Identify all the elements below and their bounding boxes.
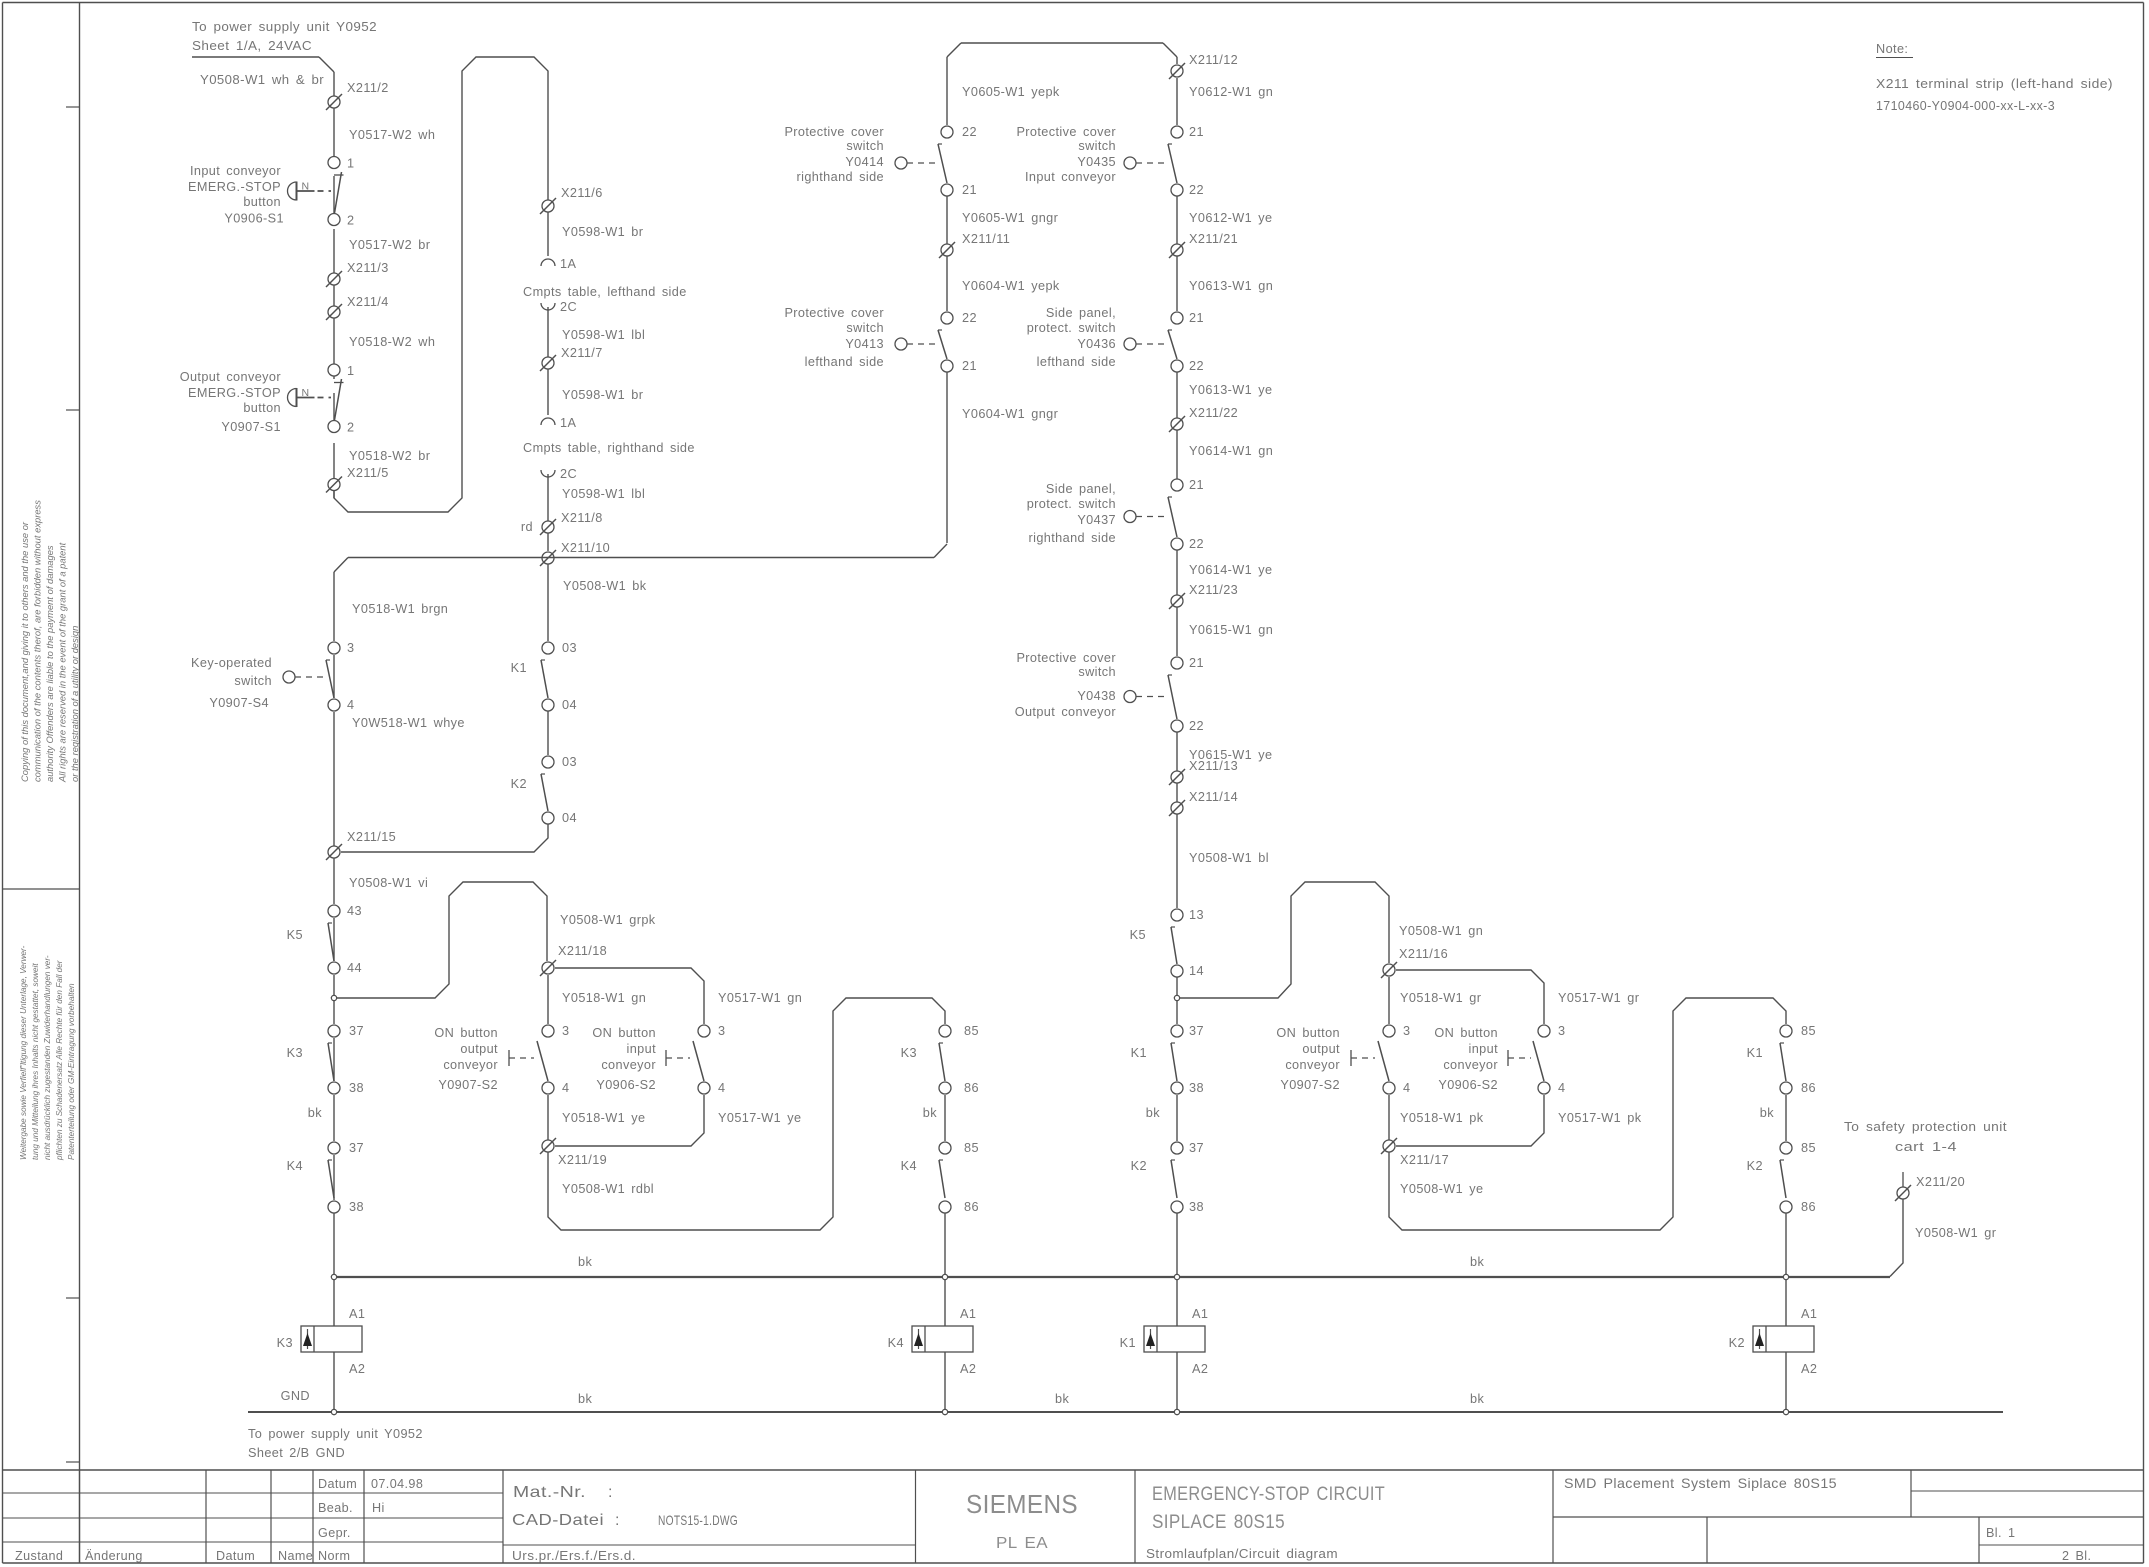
svg-text:rd: rd	[521, 520, 533, 534]
svg-text:A2: A2	[349, 1362, 365, 1376]
svg-text:bk: bk	[1055, 1392, 1069, 1406]
svg-text:X211/17: X211/17	[1400, 1153, 1449, 1167]
svg-text:K1: K1	[1747, 1046, 1763, 1060]
svg-text:Y0518-W2 wh: Y0518-W2 wh	[349, 335, 435, 349]
svg-text:4: 4	[1558, 1081, 1565, 1095]
svg-text:07.04.98: 07.04.98	[371, 1477, 423, 1491]
svg-text:Y0435: Y0435	[1077, 155, 1116, 169]
svg-text:A1: A1	[349, 1307, 365, 1321]
svg-text:switch: switch	[1078, 665, 1116, 679]
svg-text:04: 04	[562, 811, 577, 825]
svg-text:2: 2	[347, 214, 354, 228]
svg-text:Protective cover: Protective cover	[1016, 651, 1116, 665]
svg-text:Y0605-W1 gngr: Y0605-W1 gngr	[962, 211, 1059, 225]
svg-text:37: 37	[349, 1024, 364, 1038]
svg-text:K2: K2	[1729, 1336, 1745, 1350]
svg-text:ON button: ON button	[434, 1026, 498, 1040]
svg-text:X211/4: X211/4	[347, 295, 389, 309]
svg-text:Y0614-W1 ye: Y0614-W1 ye	[1189, 563, 1272, 577]
svg-text:21: 21	[1189, 656, 1204, 670]
svg-text:X211/8: X211/8	[561, 511, 603, 525]
svg-text:2: 2	[347, 421, 354, 435]
svg-text:GND: GND	[281, 1389, 310, 1403]
svg-text:Y0508-W1 rdbl: Y0508-W1 rdbl	[562, 1182, 654, 1196]
svg-text:Y0508-W1 grpk: Y0508-W1 grpk	[560, 913, 656, 927]
svg-text:85: 85	[964, 1024, 979, 1038]
svg-text:K3: K3	[287, 1046, 303, 1060]
svg-text:K5: K5	[287, 928, 303, 942]
svg-text:pflichten zu Schadenersatz All: pflichten zu Schadenersatz Alle Rechte f…	[55, 960, 64, 1161]
svg-text:All rights are reserved in the: All rights are reserved in the event of …	[57, 542, 68, 783]
svg-text:Y0517-W1 gn: Y0517-W1 gn	[718, 991, 802, 1005]
svg-text:conveyor: conveyor	[1285, 1058, 1340, 1072]
svg-text:X211/5: X211/5	[347, 466, 389, 480]
svg-text:X211/23: X211/23	[1189, 583, 1238, 597]
svg-text:EMERG.-STOP: EMERG.-STOP	[188, 386, 281, 400]
svg-text:Norm: Norm	[318, 1549, 350, 1563]
svg-text:22: 22	[962, 125, 977, 139]
svg-text:1: 1	[347, 157, 354, 171]
svg-text:To power supply unit Y0952: To power supply unit Y0952	[192, 20, 377, 34]
svg-text:K4: K4	[888, 1336, 904, 1350]
svg-text:conveyor: conveyor	[443, 1058, 498, 1072]
svg-text:Patenterteilung oder GM-Eintra: Patenterteilung oder GM-Eintragung vorbe…	[67, 983, 76, 1160]
svg-text:Stromlaufplan/Circuit diagram: Stromlaufplan/Circuit diagram	[1146, 1546, 1338, 1561]
svg-text:86: 86	[964, 1200, 979, 1214]
svg-text:Output conveyor: Output conveyor	[1015, 705, 1117, 719]
svg-text:switch: switch	[1078, 139, 1116, 153]
svg-text:K4: K4	[901, 1159, 917, 1173]
svg-text:K5: K5	[1130, 928, 1146, 942]
svg-text:Protective cover: Protective cover	[784, 125, 884, 139]
svg-text:A1: A1	[1192, 1307, 1208, 1321]
svg-text:Protective cover: Protective cover	[784, 306, 884, 320]
svg-text:Beab.: Beab.	[318, 1501, 353, 1515]
svg-text:bk: bk	[1470, 1255, 1484, 1269]
svg-text:85: 85	[964, 1141, 979, 1155]
svg-text:3: 3	[347, 641, 354, 655]
svg-text:bk: bk	[578, 1255, 592, 1269]
svg-text:input: input	[626, 1042, 656, 1056]
svg-text:Y0517-W1 pk: Y0517-W1 pk	[1558, 1111, 1642, 1125]
svg-text:output: output	[460, 1042, 498, 1056]
svg-text:Input conveyor: Input conveyor	[190, 164, 281, 178]
svg-text:Output conveyor: Output conveyor	[180, 370, 282, 384]
svg-text:K1: K1	[1131, 1046, 1147, 1060]
svg-text:X211/11: X211/11	[962, 232, 1010, 246]
svg-text:communication of the contents: communication of the contents therof, ar…	[32, 500, 43, 782]
svg-text:A2: A2	[1192, 1362, 1208, 1376]
svg-text:EMERGENCY-STOP CIRCUIT: EMERGENCY-STOP CIRCUIT	[1152, 1484, 1385, 1505]
svg-text:input: input	[1468, 1042, 1498, 1056]
svg-text:4: 4	[347, 698, 354, 712]
svg-text:button: button	[243, 195, 281, 209]
svg-text:Y0907-S2: Y0907-S2	[438, 1078, 498, 1092]
svg-text:Y0438: Y0438	[1077, 689, 1116, 703]
svg-text:Y0907-S1: Y0907-S1	[221, 420, 281, 434]
svg-text:4: 4	[718, 1081, 725, 1095]
svg-text:Y0518-W1 gr: Y0518-W1 gr	[1400, 991, 1482, 1005]
svg-text:Y0508-W1 bk: Y0508-W1 bk	[563, 579, 647, 593]
svg-text:38: 38	[349, 1200, 364, 1214]
svg-text:37: 37	[349, 1141, 364, 1155]
svg-text:Weitergabe sowie Verfielf”ltig: Weitergabe sowie Verfielf”ltigung dieser…	[19, 945, 28, 1160]
svg-text:K1: K1	[1120, 1336, 1136, 1350]
svg-text:K2: K2	[511, 777, 527, 791]
svg-text:Cmpts table, righthand side: Cmpts table, righthand side	[523, 441, 695, 455]
svg-text:22: 22	[1189, 537, 1204, 551]
svg-text:righthand side: righthand side	[1028, 531, 1116, 545]
svg-text:2C: 2C	[560, 300, 577, 314]
svg-text:Zustand: Zustand	[15, 1549, 63, 1563]
svg-text:Y0508-W1 ye: Y0508-W1 ye	[1400, 1182, 1483, 1196]
svg-text:Sheet 1/A, 24VAC: Sheet 1/A, 24VAC	[192, 39, 312, 53]
svg-text:22: 22	[1189, 719, 1204, 733]
svg-text:Y0437: Y0437	[1077, 513, 1116, 527]
svg-text:03: 03	[562, 641, 577, 655]
svg-text:Datum: Datum	[216, 1549, 255, 1563]
svg-text:Y0518-W1 ye: Y0518-W1 ye	[562, 1111, 645, 1125]
svg-text:X211/22: X211/22	[1189, 406, 1238, 420]
svg-text:Y0614-W1 gn: Y0614-W1 gn	[1189, 444, 1273, 458]
svg-text:Änderung: Änderung	[85, 1549, 143, 1563]
svg-text:bk: bk	[1470, 1392, 1484, 1406]
svg-text:3: 3	[1403, 1024, 1410, 1038]
svg-text:K2: K2	[1747, 1159, 1763, 1173]
svg-text:37: 37	[1189, 1024, 1204, 1038]
svg-text:21: 21	[1189, 311, 1204, 325]
svg-text:K3: K3	[277, 1336, 293, 1350]
svg-text:Copying of this document,and g: Copying of this document,and giving it t…	[19, 521, 30, 782]
svg-text:cart 1-4: cart 1-4	[1895, 1140, 1957, 1154]
svg-text:X211/15: X211/15	[347, 830, 396, 844]
svg-text:86: 86	[1801, 1200, 1816, 1214]
svg-text:Y0604-W1 gngr: Y0604-W1 gngr	[962, 407, 1059, 421]
svg-text:ON button: ON button	[592, 1026, 656, 1040]
svg-text:38: 38	[1189, 1200, 1204, 1214]
svg-text:14: 14	[1189, 964, 1204, 978]
svg-text:Side panel,: Side panel,	[1046, 482, 1116, 496]
svg-text::: :	[608, 1484, 613, 1501]
svg-text:2C: 2C	[560, 467, 577, 481]
svg-text:tung und Mitteilung ihres Inha: tung und Mitteilung ihres Inhalts nicht …	[31, 963, 40, 1160]
svg-text:1: 1	[347, 364, 354, 378]
svg-text:button: button	[243, 401, 281, 415]
svg-text:Y0598-W1 br: Y0598-W1 br	[562, 225, 644, 239]
svg-text:Key-operated: Key-operated	[191, 656, 272, 670]
svg-text:4: 4	[1403, 1081, 1410, 1095]
svg-text:1A: 1A	[560, 416, 576, 430]
svg-text:Note:: Note:	[1876, 42, 1908, 56]
svg-text:Gepr.: Gepr.	[318, 1526, 351, 1540]
svg-text:85: 85	[1801, 1024, 1816, 1038]
svg-text:Y0W518-W1 whye: Y0W518-W1 whye	[352, 716, 465, 730]
svg-text:K2: K2	[1131, 1159, 1147, 1173]
svg-text:38: 38	[349, 1081, 364, 1095]
svg-text:Y0907-S4: Y0907-S4	[209, 696, 269, 710]
svg-text:X211/6: X211/6	[561, 186, 603, 200]
svg-text:13: 13	[1189, 908, 1204, 922]
svg-text:Y0508-W1 bl: Y0508-W1 bl	[1189, 851, 1269, 865]
svg-text::: :	[615, 1512, 620, 1529]
svg-text:1A: 1A	[560, 257, 576, 271]
svg-text:N: N	[302, 387, 310, 399]
svg-text:43: 43	[347, 904, 362, 918]
svg-text:X211/12: X211/12	[1189, 53, 1238, 67]
svg-text:bk: bk	[1146, 1106, 1160, 1120]
svg-text:NOTS15-1.DWG: NOTS15-1.DWG	[658, 1512, 738, 1528]
svg-text:Y0598-W1 lbl: Y0598-W1 lbl	[562, 328, 645, 342]
svg-text:A2: A2	[1801, 1362, 1817, 1376]
svg-text:ON button: ON button	[1434, 1026, 1498, 1040]
svg-text:38: 38	[1189, 1081, 1204, 1095]
svg-text:CAD-Datei: CAD-Datei	[512, 1512, 604, 1529]
svg-text:Mat.-Nr.: Mat.-Nr.	[513, 1484, 586, 1501]
svg-text:86: 86	[964, 1081, 979, 1095]
svg-text:lefthand side: lefthand side	[1037, 355, 1116, 369]
svg-text:protect. switch: protect. switch	[1027, 497, 1116, 511]
svg-text:A2: A2	[960, 1362, 976, 1376]
svg-text:K4: K4	[287, 1159, 303, 1173]
svg-text:04: 04	[562, 698, 577, 712]
svg-text:nicht ausdrücklich zugestanden: nicht ausdrücklich zugestanden Zuwiderha…	[43, 955, 52, 1160]
svg-text:X211/20: X211/20	[1916, 1175, 1965, 1189]
svg-text:22: 22	[1189, 183, 1204, 197]
svg-text:Y0518-W1 brgn: Y0518-W1 brgn	[352, 602, 448, 616]
svg-text:Datum: Datum	[318, 1477, 357, 1491]
svg-text:X211/7: X211/7	[561, 346, 603, 360]
svg-text:3: 3	[1558, 1024, 1565, 1038]
svg-text:X211/14: X211/14	[1189, 790, 1238, 804]
svg-text:righthand side: righthand side	[796, 170, 884, 184]
svg-text:Y0517-W1 ye: Y0517-W1 ye	[718, 1111, 801, 1125]
svg-text:Y0907-S2: Y0907-S2	[1280, 1078, 1340, 1092]
svg-text:Y0518-W1 gn: Y0518-W1 gn	[562, 991, 646, 1005]
svg-text:4: 4	[562, 1081, 569, 1095]
svg-text:Input conveyor: Input conveyor	[1025, 170, 1116, 184]
svg-text:Name: Name	[278, 1549, 313, 1563]
svg-text:bk: bk	[578, 1392, 592, 1406]
svg-text:Y0613-W1 ye: Y0613-W1 ye	[1189, 383, 1272, 397]
svg-text:bk: bk	[308, 1106, 322, 1120]
svg-text:X211/16: X211/16	[1399, 947, 1448, 961]
svg-text:Y0508-W1 vi: Y0508-W1 vi	[349, 876, 428, 890]
svg-text:37: 37	[1189, 1141, 1204, 1155]
svg-text:switch: switch	[234, 674, 272, 688]
svg-text:Y0517-W2 br: Y0517-W2 br	[349, 238, 431, 252]
svg-text:85: 85	[1801, 1141, 1816, 1155]
svg-text:bk: bk	[923, 1106, 937, 1120]
svg-text:X211/10: X211/10	[561, 541, 610, 555]
svg-text:2 Bl.: 2 Bl.	[2062, 1549, 2091, 1563]
svg-text:Y0612-W1 gn: Y0612-W1 gn	[1189, 85, 1273, 99]
svg-text:X211/2: X211/2	[347, 81, 389, 95]
svg-text:or the registration of a utili: or the registration of a utility or desi…	[69, 626, 80, 782]
svg-text:conveyor: conveyor	[1443, 1058, 1498, 1072]
svg-text:86: 86	[1801, 1081, 1816, 1095]
svg-text:lefthand side: lefthand side	[805, 355, 884, 369]
svg-text:21: 21	[962, 359, 977, 373]
svg-text:ON button: ON button	[1276, 1026, 1340, 1040]
svg-text:Y0906-S1: Y0906-S1	[224, 212, 284, 226]
svg-text:21: 21	[1189, 478, 1204, 492]
svg-text:Y0518-W2 br: Y0518-W2 br	[349, 449, 431, 463]
svg-text:44: 44	[347, 961, 362, 975]
svg-text:switch: switch	[846, 321, 884, 335]
svg-text:Y0508-W1 gr: Y0508-W1 gr	[1915, 1226, 1997, 1240]
svg-text:Y0518-W1 pk: Y0518-W1 pk	[1400, 1111, 1484, 1125]
svg-text:authority Offenders are liable: authority Offenders are liable to the pa…	[44, 545, 55, 782]
svg-text:1710460-Y0904-000-xx-L-xx-3: 1710460-Y0904-000-xx-L-xx-3	[1876, 99, 2055, 113]
svg-text:Y0508-W1 wh & br: Y0508-W1 wh & br	[200, 73, 324, 87]
svg-text:To power supply unit Y0952: To power supply unit Y0952	[248, 1427, 423, 1441]
svg-text:Y0517-W1 gr: Y0517-W1 gr	[1558, 991, 1640, 1005]
svg-text:switch: switch	[846, 139, 884, 153]
svg-text:Y0508-W1 gn: Y0508-W1 gn	[1399, 924, 1483, 938]
svg-text:K1: K1	[511, 661, 527, 675]
svg-text:bk: bk	[1760, 1106, 1774, 1120]
svg-text:Cmpts table, lefthand side: Cmpts table, lefthand side	[523, 285, 687, 299]
svg-text:Protective cover: Protective cover	[1016, 125, 1116, 139]
svg-text:Urs.pr./Ers.f./Ers.d.: Urs.pr./Ers.f./Ers.d.	[512, 1549, 636, 1563]
svg-text:N: N	[302, 181, 310, 193]
svg-text:Y0517-W2 wh: Y0517-W2 wh	[349, 128, 435, 142]
svg-text:A1: A1	[960, 1307, 976, 1321]
svg-text:SMD Placement System Siplace 8: SMD Placement System Siplace 80S15	[1564, 1475, 1837, 1491]
svg-text:To safety protection unit: To safety protection unit	[1844, 1120, 2007, 1134]
svg-text:03: 03	[562, 755, 577, 769]
svg-text:A1: A1	[1801, 1307, 1817, 1321]
svg-text:X211/21: X211/21	[1189, 232, 1238, 246]
svg-text:Hi: Hi	[372, 1501, 385, 1515]
svg-text:SIEMENS: SIEMENS	[966, 1489, 1078, 1519]
svg-text:Y0613-W1 gn: Y0613-W1 gn	[1189, 279, 1273, 293]
svg-text:Y0598-W1 br: Y0598-W1 br	[562, 388, 644, 402]
svg-text:Sheet 2/B GND: Sheet 2/B GND	[248, 1446, 345, 1460]
svg-text:X211/18: X211/18	[558, 944, 607, 958]
svg-text:conveyor: conveyor	[601, 1058, 656, 1072]
svg-text:X211/3: X211/3	[347, 261, 389, 275]
svg-text:Y0413: Y0413	[845, 337, 884, 351]
svg-text:EMERG.-STOP: EMERG.-STOP	[188, 180, 281, 194]
svg-text:protect. switch: protect. switch	[1027, 321, 1116, 335]
svg-text:Y0615-W1 gn: Y0615-W1 gn	[1189, 623, 1273, 637]
svg-text:X211/19: X211/19	[558, 1153, 607, 1167]
svg-text:X211 terminal strip (left-hand: X211 terminal strip (left-hand side)	[1876, 77, 2113, 91]
svg-text:Y0414: Y0414	[845, 155, 884, 169]
svg-text:22: 22	[962, 311, 977, 325]
svg-text:Y0598-W1 lbl: Y0598-W1 lbl	[562, 487, 645, 501]
svg-text:Y0436: Y0436	[1077, 337, 1116, 351]
svg-text:Y0605-W1 yepk: Y0605-W1 yepk	[962, 85, 1060, 99]
svg-text:21: 21	[1189, 125, 1204, 139]
svg-text:Y0612-W1 ye: Y0612-W1 ye	[1189, 211, 1272, 225]
svg-text:output: output	[1302, 1042, 1340, 1056]
svg-text:X211/13: X211/13	[1189, 759, 1238, 773]
svg-text:K3: K3	[901, 1046, 917, 1060]
svg-text:PL EA: PL EA	[996, 1535, 1048, 1552]
svg-text:Y0906-S2: Y0906-S2	[596, 1078, 656, 1092]
svg-text:3: 3	[562, 1024, 569, 1038]
svg-text:21: 21	[962, 183, 977, 197]
svg-text:SIPLACE 80S15: SIPLACE 80S15	[1152, 1512, 1285, 1533]
svg-text:3: 3	[718, 1024, 725, 1038]
svg-text:Bl. 1: Bl. 1	[1986, 1526, 2015, 1540]
svg-text:Side panel,: Side panel,	[1046, 306, 1116, 320]
svg-text:Y0906-S2: Y0906-S2	[1438, 1078, 1498, 1092]
svg-text:Y0604-W1 yepk: Y0604-W1 yepk	[962, 279, 1060, 293]
svg-text:22: 22	[1189, 359, 1204, 373]
